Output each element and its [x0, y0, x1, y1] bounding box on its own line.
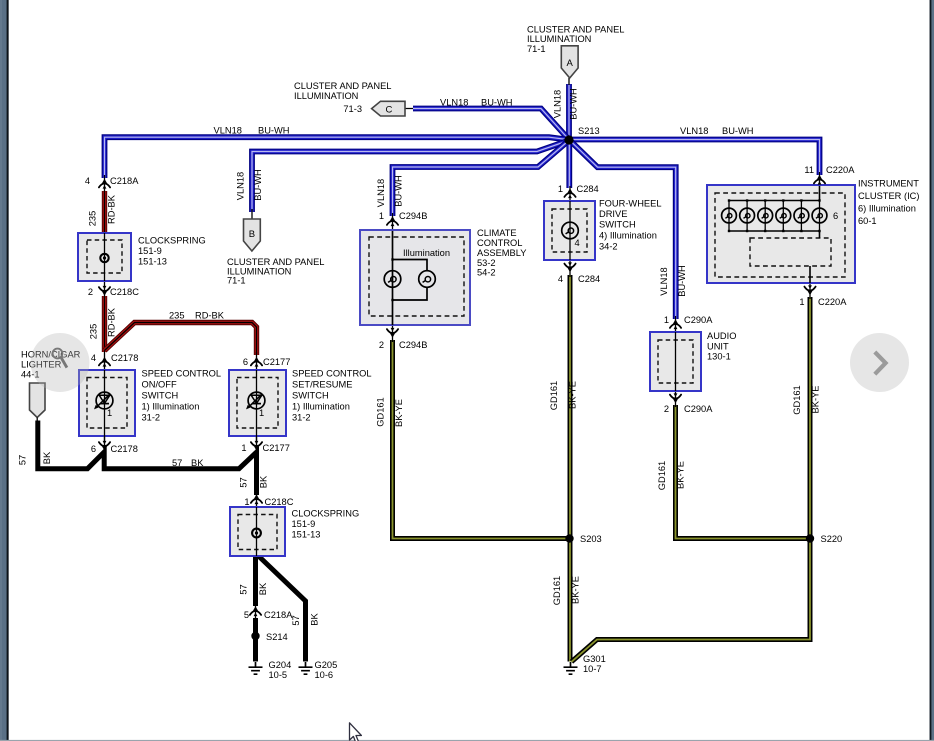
svg-text:4: 4 [85, 176, 90, 186]
svg-text:ILLUMINATION: ILLUMINATION [527, 34, 591, 44]
svg-text:BU-WH: BU-WH [394, 175, 404, 207]
svg-text:GD161: GD161 [552, 576, 562, 605]
svg-text:DRIVE: DRIVE [599, 209, 627, 219]
svg-text:6: 6 [243, 357, 248, 367]
horn/cigar lighter connector [30, 383, 46, 421]
svg-text:BU-WH: BU-WH [722, 126, 754, 136]
svg-text:ASSEMBLY: ASSEMBLY [477, 248, 526, 258]
svg-text:1: 1 [558, 184, 563, 194]
splice S213 [564, 135, 573, 144]
svg-text:57: 57 [239, 584, 249, 594]
pin link lines (thin) [105, 78, 820, 620]
off-page connector C [372, 101, 405, 116]
speed control on/off switch box [79, 370, 135, 441]
svg-text:GD161: GD161 [792, 385, 802, 414]
right window frame bar [930, 0, 934, 741]
svg-text:VLN18: VLN18 [376, 179, 386, 207]
svg-text:BU-WH: BU-WH [481, 98, 513, 108]
svg-text:1) Illumination: 1) Illumination [142, 402, 200, 412]
svg-text:G204: G204 [269, 660, 292, 670]
svg-text:VLN18: VLN18 [440, 98, 468, 108]
svg-text:60-1: 60-1 [858, 216, 877, 226]
wire VLN18 BU-WH from connector B to splice S213 [252, 141, 568, 212]
wire VLN18 BU-WH from connector A to splice S213 [566, 84, 572, 140]
svg-text:SWITCH: SWITCH [142, 391, 179, 401]
connector C2177 pin 6 arrow [251, 357, 262, 367]
connector C284 pin 1 arrow [564, 188, 575, 198]
svg-text:BK: BK [259, 475, 269, 488]
left nav button overlay circle [31, 333, 90, 392]
svg-text:GD161: GD161 [657, 461, 667, 490]
mouse cursor [350, 723, 362, 741]
svg-text:57: 57 [291, 615, 301, 625]
svg-text:G205: G205 [315, 660, 338, 670]
svg-text:CLOCKSPRING: CLOCKSPRING [292, 509, 360, 519]
wire VLN18 BU-WH from connector C to splice S213 [413, 109, 569, 140]
wire GD161 BK-YE from instrument cluster C220A through S220 to ground G301 [572, 297, 811, 662]
svg-text:1: 1 [107, 408, 112, 418]
svg-text:SET/RESUME: SET/RESUME [292, 380, 352, 390]
svg-text:BK: BK [191, 458, 204, 468]
svg-text:235: 235 [88, 211, 98, 227]
splice S214 [251, 632, 259, 640]
svg-text:C2178: C2178 [111, 444, 138, 454]
svg-text:SWITCH: SWITCH [292, 391, 329, 401]
svg-text:AUDIO: AUDIO [707, 331, 736, 341]
svg-text:2: 2 [664, 404, 669, 414]
svg-text:SPEED CONTROL: SPEED CONTROL [292, 369, 372, 379]
svg-text:2: 2 [88, 287, 93, 297]
svg-text:BU-WH: BU-WH [253, 169, 263, 201]
svg-text:1: 1 [259, 408, 264, 418]
svg-text:ILLUMINATION: ILLUMINATION [294, 91, 358, 101]
svg-text:CLIMATE: CLIMATE [477, 228, 517, 238]
svg-text:C294B: C294B [399, 211, 427, 221]
svg-text:31-2: 31-2 [142, 413, 161, 423]
svg-text:VLN18: VLN18 [680, 126, 708, 136]
connector C218C pin 1 arrow [251, 494, 262, 504]
wire VLN18 BU-WH from connector C218A to splice S213 [105, 137, 569, 178]
svg-text:ON/OFF: ON/OFF [142, 380, 177, 390]
svg-text:235: 235 [169, 311, 185, 321]
wire 57 BK clockspring to ground G205 [258, 556, 306, 662]
svg-text:53-2: 53-2 [477, 258, 496, 268]
splice S203 [565, 534, 573, 542]
svg-text:4: 4 [91, 353, 96, 363]
connector C294B pin 1 arrow [387, 216, 398, 226]
svg-text:6: 6 [833, 211, 838, 221]
instrument cluster (IC) box [707, 185, 855, 283]
svg-text:CLUSTER (IC): CLUSTER (IC) [858, 191, 919, 201]
svg-text:151-13: 151-13 [292, 530, 321, 540]
svg-text:BU-WH: BU-WH [569, 88, 579, 120]
svg-text:C294B: C294B [399, 340, 427, 350]
connector C284 pin 4 arrow [564, 262, 575, 272]
svg-text:C284: C284 [577, 184, 599, 194]
svg-text:S214: S214 [266, 632, 288, 642]
wire VLN18 BU-WH from splice S213 to audio unit C290A [570, 141, 676, 320]
svg-text:10-5: 10-5 [269, 670, 288, 680]
svg-text:BK-YE: BK-YE [394, 399, 404, 427]
svg-text:VLN18: VLN18 [553, 90, 563, 118]
svg-text:CLUSTER AND PANEL: CLUSTER AND PANEL [527, 25, 624, 35]
right nav button overlay circle [850, 333, 909, 392]
svg-text:71-1: 71-1 [527, 44, 546, 54]
svg-text:CLUSTER AND PANEL: CLUSTER AND PANEL [294, 81, 391, 91]
wire GD161 BK-YE from audio unit C290A to splice S220 [676, 405, 811, 539]
connector C218C pin 2 arrow [99, 286, 110, 296]
svg-text:71-1: 71-1 [227, 276, 246, 286]
svg-text:G301: G301 [583, 654, 606, 664]
svg-text:VLN18: VLN18 [214, 126, 242, 136]
svg-text:C2178: C2178 [111, 353, 138, 363]
svg-text:FOUR-WHEEL: FOUR-WHEEL [599, 199, 662, 209]
off-page connector A [561, 46, 578, 78]
svg-text:235: 235 [89, 324, 99, 340]
svg-text:31-2: 31-2 [292, 413, 311, 423]
splice S220 [806, 534, 814, 542]
wire 57 BK clockspring to C218A pin 5 [253, 556, 258, 606]
wire VLN18 BU-WH from splice S213 to four-wheel drive switch C284 [566, 140, 572, 188]
connector C2178 pin 4 arrow [99, 357, 110, 367]
audio unit box [650, 332, 701, 391]
svg-text:S220: S220 [821, 534, 843, 544]
svg-text:C218C: C218C [265, 497, 294, 507]
svg-text:5: 5 [244, 610, 249, 620]
wire 57 BK from horn/cigar lighter joining switches [38, 421, 257, 496]
svg-text:57: 57 [239, 477, 249, 487]
svg-text:VLN18: VLN18 [659, 267, 669, 295]
svg-text:151-9: 151-9 [138, 246, 162, 256]
wire VLN18 BU-WH from splice S213 to instrument cluster C220A [569, 140, 820, 176]
svg-text:SPEED CONTROL: SPEED CONTROL [142, 369, 222, 379]
wire 57 BK C218A through S214 to ground G204 [253, 618, 258, 662]
svg-text:VLN18: VLN18 [236, 172, 246, 200]
connector C294B pin 2 arrow [387, 328, 398, 338]
svg-text:BK: BK [258, 582, 268, 595]
svg-text:BK-YE: BK-YE [571, 576, 581, 604]
svg-text:71-3: 71-3 [343, 104, 362, 114]
svg-text:11: 11 [804, 165, 814, 175]
svg-text:130-1: 130-1 [707, 352, 731, 362]
svg-text:RD-BK: RD-BK [195, 311, 225, 321]
svg-text:CLOCKSPRING: CLOCKSPRING [138, 236, 206, 246]
right nav chevron [875, 352, 886, 374]
wire GD161 BK-YE from climate control C294B to splice S203 [393, 340, 570, 539]
wire VLN18 BU-WH from climate control C294B to splice S213 [393, 142, 568, 216]
svg-text:GD161: GD161 [549, 381, 559, 410]
svg-text:1: 1 [664, 315, 669, 325]
connector C218A pin 5 arrow [250, 606, 261, 616]
four-wheel drive switch box [544, 201, 595, 260]
svg-text:4: 4 [575, 238, 580, 248]
svg-text:CONTROL: CONTROL [477, 238, 522, 248]
bottom frame line [0, 740, 934, 741]
svg-text:RD-BK: RD-BK [107, 307, 117, 337]
svg-text:INSTRUMENT: INSTRUMENT [858, 179, 919, 189]
svg-text:B: B [249, 229, 255, 240]
ground G205 [299, 662, 313, 674]
svg-text:C290A: C290A [684, 315, 713, 325]
svg-text:C290A: C290A [684, 404, 713, 414]
svg-text:6) Illumination: 6) Illumination [858, 204, 916, 214]
svg-text:RD-BK: RD-BK [107, 194, 117, 224]
off-page connector B [244, 219, 261, 251]
connector C218A pin 4 arrow [99, 179, 110, 189]
svg-text:C218A: C218A [110, 176, 139, 186]
svg-text:S203: S203 [580, 534, 602, 544]
svg-text:BK-YE: BK-YE [676, 461, 686, 489]
svg-text:1: 1 [379, 211, 384, 221]
svg-text:UNIT: UNIT [707, 342, 729, 352]
svg-text:10-6: 10-6 [315, 670, 334, 680]
svg-text:C218C: C218C [110, 287, 139, 297]
svg-text:A: A [567, 58, 574, 69]
svg-text:C284: C284 [578, 274, 600, 284]
climate control assembly box [360, 230, 470, 325]
wire GD161 BK-YE from four-wheel drive C284 through S203 to ground G301 [568, 275, 573, 662]
svg-text:BU-WH: BU-WH [677, 265, 687, 297]
connector C2178 pin 6 arrow [99, 441, 110, 451]
left window frame bar [0, 0, 9, 741]
svg-text:2: 2 [379, 340, 384, 350]
svg-text:1: 1 [244, 497, 249, 507]
connector C220A pin 11 arrow [814, 175, 825, 185]
svg-text:4: 4 [558, 274, 563, 284]
svg-text:BK-YE: BK-YE [811, 386, 821, 414]
svg-text:151-13: 151-13 [138, 257, 167, 267]
svg-text:BK: BK [310, 613, 320, 626]
svg-text:C2177: C2177 [263, 357, 290, 367]
svg-text:C2177: C2177 [263, 443, 290, 453]
svg-text:1: 1 [799, 297, 804, 307]
connector C2177 pin 1 arrow [251, 441, 262, 451]
svg-text:Illumination: Illumination [403, 248, 450, 258]
svg-text:10-7: 10-7 [583, 664, 602, 674]
svg-text:151-9: 151-9 [292, 519, 316, 529]
svg-text:C: C [386, 105, 393, 116]
clockspring upper component box [78, 233, 131, 281]
svg-text:BK-YE: BK-YE [568, 381, 578, 409]
svg-text:54-2: 54-2 [477, 268, 496, 278]
svg-text:57: 57 [172, 458, 182, 468]
wire 235 RD-BK from C218A to clockspring [102, 191, 107, 233]
ground G301 [564, 662, 578, 674]
wire 235 RD-BK branch to speed control set/resume switch C2177 [105, 323, 257, 356]
svg-text:4) Illumination: 4) Illumination [599, 231, 657, 241]
speed control set/resume switch box [229, 370, 286, 441]
svg-text:C218A: C218A [264, 610, 293, 620]
svg-text:S213: S213 [578, 126, 600, 136]
svg-text:C220A: C220A [818, 297, 847, 307]
svg-text:57: 57 [18, 455, 28, 465]
connector C290A pin 2 arrow [670, 393, 681, 403]
ground G204 [249, 662, 263, 674]
svg-text:BK: BK [42, 451, 52, 464]
svg-text:C220A: C220A [826, 165, 855, 175]
svg-text:1: 1 [241, 443, 246, 453]
connector C290A pin 1 arrow [670, 319, 681, 329]
wire 235 RD-BK from C218C to speed control on/off switch C2178 [102, 296, 107, 352]
svg-text:34-2: 34-2 [599, 242, 618, 252]
left magnifier icon [53, 349, 67, 368]
svg-text:GD161: GD161 [376, 397, 386, 426]
svg-text:6: 6 [91, 444, 96, 454]
svg-text:CLUSTER AND PANEL: CLUSTER AND PANEL [227, 257, 324, 267]
svg-text:BU-WH: BU-WH [258, 126, 290, 136]
svg-text:SWITCH: SWITCH [599, 220, 636, 230]
connector C220A pin 1 arrow [804, 285, 815, 295]
svg-text:1) Illumination: 1) Illumination [292, 402, 350, 412]
clockspring lower component box [230, 507, 285, 556]
